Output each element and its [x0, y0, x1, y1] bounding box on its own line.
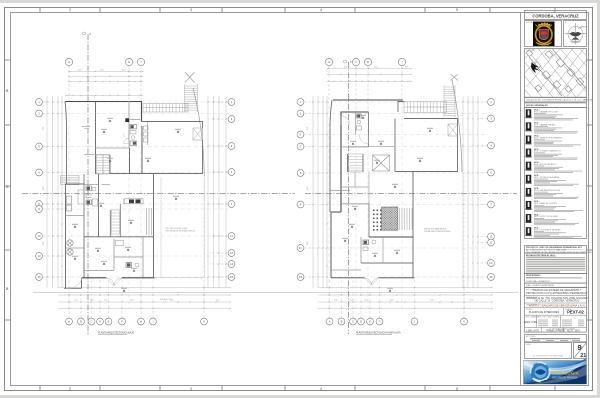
- plan1 grid bubbles bottom: [66, 318, 73, 325]
- svg-text:2.40: 2.40: [104, 300, 107, 302]
- svg-text:3: 3: [190, 387, 192, 391]
- symbol legend list: [525, 108, 587, 239]
- svg-text:3.50: 3.50: [122, 69, 125, 71]
- plan2 bath fixtures upper: [357, 114, 362, 118]
- notes header block: [525, 246, 587, 254]
- svg-text:2.85: 2.85: [43, 242, 45, 245]
- svg-text:2.40: 2.40: [216, 300, 219, 302]
- svg-text:MOD.: CONTACTO MAGNETICO: MOD.: CONTACTO MAGNETICO: [534, 150, 562, 153]
- svg-text:2.85: 2.85: [307, 127, 309, 130]
- title block separator: [520, 13, 522, 386]
- svg-text:TRAMO: A PARTE: TRAMO: A PARTE: [546, 329, 565, 332]
- svg-text:E: E: [108, 320, 110, 324]
- plan1 dimension lines bottom: [58, 287, 230, 289]
- svg-text:2.85: 2.85: [43, 187, 45, 190]
- plan2 dimension lines top: [328, 68, 411, 70]
- plan2 bottom wall with entry: [331, 277, 365, 279]
- plan2 exterior walls upper: [341, 112, 369, 212]
- svg-text:INSTALACION PARA EL HILO:: INSTALACION PARA EL HILO:: [526, 254, 556, 257]
- section line A-A: [22, 193, 295, 195]
- plan2 interior upper walls: [368, 112, 370, 147]
- svg-text:11': 11': [489, 241, 493, 245]
- plan1 bottom wall with entry: [82, 277, 107, 279]
- plan1 grid bubbles right: [228, 99, 235, 106]
- svg-text:TECNOLOGIA: TECNOLOGIA: [549, 371, 579, 376]
- symbol row 7: [525, 187, 579, 199]
- crest emblem: [533, 22, 555, 47]
- plan1 big room upper-right: [110, 122, 203, 174]
- svg-text:PROTECCION (CCTV) EXTERIORES (: PROTECCION (CCTV) EXTERIORES (PERIMETRAL…: [526, 292, 588, 295]
- svg-text:5: 5: [456, 8, 458, 12]
- svg-text:2.40: 2.40: [90, 300, 93, 302]
- plan1 kitchen counter: [124, 199, 143, 204]
- svg-text:9: 9: [578, 343, 582, 352]
- svg-text:ACOT.: MTS: ACOT.: MTS: [567, 329, 580, 332]
- svg-text:H. CORDOBA: H. CORDOBA: [538, 43, 550, 46]
- svg-text:NOTAS GENERALES: NOTAS GENERALES: [526, 104, 548, 107]
- svg-text:2.40: 2.40: [130, 300, 133, 302]
- empty box + sheet number: [525, 343, 572, 359]
- svg-text:MOD.: TECLADO DE ALARMA: MOD.: TECLADO DE ALARMA: [534, 176, 560, 179]
- section line A-A right: [305, 193, 517, 195]
- simbologia strip: [525, 103, 587, 108]
- plan2 central walls: [394, 119, 396, 172]
- svg-text:4: 4: [320, 8, 322, 12]
- plan2 lower bath fixtures: [363, 240, 369, 245]
- plan2 upper exterior stair (vertical run): [444, 85, 455, 117]
- svg-text:PLANTA ARQUITECTONICA PLANTA A: PLANTA ARQUITECTONICA PLANTA ALTA: [356, 332, 401, 335]
- symbol row 9: [525, 213, 579, 225]
- plan2 grid bubbles left: [297, 99, 304, 106]
- svg-text:E: E: [369, 320, 371, 324]
- symbol row 8: [525, 200, 583, 212]
- plan1 exterior walls upper block: [65, 102, 142, 122]
- svg-text:11: 11: [490, 235, 493, 239]
- plan1 upper stairs: [84, 154, 110, 156]
- plan2 stairs top: [404, 102, 447, 113]
- plan2 left boundary curve: [330, 100, 332, 212]
- svg-text:2: 2: [69, 387, 71, 391]
- plan2 lower rooms: [360, 237, 362, 263]
- svg-text:MOD.: SENSOR DE MOVIMIENTO: MOD.: SENSOR DE MOVIMIENTO: [534, 138, 563, 140]
- plan2 dimension lines left: [312, 96, 314, 288]
- signature strip: [525, 335, 587, 342]
- plan1 grid bubbles top: [65, 58, 72, 65]
- symbol row 2: [525, 122, 578, 134]
- svg-text:AUTORIZO:: AUTORIZO:: [526, 335, 537, 338]
- svg-text:B: B: [341, 320, 343, 324]
- dense notes paragraph: [525, 253, 587, 273]
- svg-text:10: 10: [37, 234, 41, 238]
- svg-text:3.50: 3.50: [78, 69, 81, 71]
- symbol row 6: [525, 174, 579, 186]
- svg-text:15: 15: [230, 275, 234, 279]
- svg-text:VISUALIZACION/MONITOREO: VISUALIZACION/MONITOREO: [424, 230, 451, 233]
- svg-text:D: D: [99, 320, 101, 324]
- svg-text:MOD.: DETECTOR DE HUMO: MOD.: DETECTOR DE HUMO: [534, 216, 559, 218]
- svg-text:C': C': [355, 60, 358, 64]
- plan2 grid bubbles top: [325, 58, 332, 65]
- svg-text:2.85: 2.85: [43, 127, 45, 130]
- location map box: [525, 49, 587, 98]
- svg-text:K: K: [463, 320, 465, 324]
- svg-text:CORDOBA - VERACRUZ: CORDOBA - VERACRUZ: [526, 280, 550, 283]
- svg-text:PEXT-02: PEXT-02: [567, 310, 584, 315]
- svg-text:B: B: [80, 320, 82, 324]
- plan1 exterior side stair: [61, 176, 80, 185]
- plan1 central stairs: [109, 210, 111, 237]
- svg-text:A: A: [328, 60, 330, 64]
- svg-text:3.50: 3.50: [405, 67, 408, 69]
- svg-text:C: C: [90, 320, 92, 324]
- plan2 service rooms above recamara: [330, 190, 350, 192]
- symbol row 4: [525, 148, 578, 160]
- ubicacion strip: [525, 98, 587, 102]
- plan1 bath column fixtures: [86, 186, 92, 191]
- svg-text:15: 15: [37, 275, 41, 279]
- svg-text:ESCALA 1:75: ESCALA 1:75: [160, 298, 171, 301]
- svg-text:2.40: 2.40: [334, 300, 337, 302]
- plan2 recamara walls: [341, 203, 369, 205]
- svg-text:11': 11': [299, 246, 303, 250]
- svg-text:15: 15: [489, 275, 493, 279]
- symbol row 5: [525, 161, 582, 173]
- svg-text:5: 5: [456, 387, 458, 391]
- plan1 garage label: [82, 125, 90, 128]
- plan1 door arcs upper: [124, 134, 129, 139]
- plan2 X cross void: [373, 155, 390, 171]
- plan1 stairs top: [143, 104, 188, 113]
- plan1 lower rooms: [83, 237, 85, 278]
- svg-text:MOD.: BOTON DE PANICO: MOD.: BOTON DE PANICO: [534, 163, 557, 166]
- border zone labels: [6, 8, 458, 391]
- svg-text:VoBo:: VoBo:: [526, 344, 532, 346]
- plan2 closet dotted grid: [373, 210, 375, 212]
- svg-text:ESC. DE COTAS / DATOS: ESC. DE COTAS / DATOS: [538, 315, 560, 318]
- svg-text:MOD.: CAMARA FIJA EXT.: MOD.: CAMARA FIJA EXT.: [534, 124, 556, 127]
- plan2 dimension lines right: [462, 96, 464, 288]
- plan1 lower bath fixtures: [126, 263, 132, 268]
- svg-text:INSTITUTO BANCARIO DE VERACRUZ: INSTITUTO BANCARIO DE VERACRUZANA (I.B.V…: [529, 304, 585, 307]
- svg-text:14: 14: [230, 262, 234, 266]
- svg-text:2.40: 2.40: [74, 300, 77, 302]
- svg-text:13: 13: [37, 254, 41, 258]
- obs strip: [525, 283, 587, 287]
- svg-text:OBS.: SUJETO A REVISION: OBS.: SUJETO A REVISION: [526, 284, 554, 287]
- plan2 grid bubbles right: [488, 99, 495, 106]
- symbol row 10: [525, 226, 582, 238]
- plan2 site boundary: [452, 80, 462, 172]
- svg-text:F: F: [379, 320, 381, 324]
- plan1 room labels: [107, 118, 113, 122]
- plan1 bath column wall: [98, 174, 100, 237]
- svg-text:MOD.: LECTORA DE TARJETAS: MOD.: LECTORA DE TARJETAS: [534, 228, 561, 231]
- plan1 entry double door arcs: [106, 278, 121, 286]
- plan1 mid horizontal wall: [84, 236, 154, 238]
- svg-text:PLANOS DE INTERIORES: PLANOS DE INTERIORES: [529, 311, 560, 314]
- svg-text:3: 3: [190, 8, 192, 12]
- svg-text:2.40: 2.40: [350, 300, 353, 302]
- plan2 middle bottom wall: [369, 236, 413, 238]
- plan2 grid bubbles bottom: [326, 318, 333, 325]
- svg-text:2.85: 2.85: [307, 187, 309, 190]
- plan1 left wing walls: [66, 184, 85, 288]
- north arrow box: [564, 21, 587, 47]
- svg-text:VER DETALLE EN PLANO EST-01: VER DETALLE EN PLANO EST-01: [166, 229, 196, 232]
- plan1 grid bubbles left: [36, 99, 43, 106]
- header box: [525, 11, 587, 20]
- svg-text:2: 2: [69, 8, 71, 12]
- svg-text:12: 12: [230, 251, 234, 255]
- plan2 dimension lines bottom: [318, 287, 492, 289]
- plan1 dimension lines right: [207, 96, 209, 288]
- svg-text:15: 15: [299, 275, 303, 279]
- plan2 top boundary wall: [333, 99, 403, 101]
- svg-text:2.40: 2.40: [430, 300, 433, 302]
- plan1 porch corner: [81, 278, 83, 289]
- plan1 dimension lines left: [46, 96, 48, 288]
- svg-text:D: D: [360, 320, 362, 324]
- plan1 vertical axis line: [87, 34, 89, 334]
- svg-text:PLANTA ARQUITECTONICA BAJA: PLANTA ARQUITECTONICA BAJA: [98, 332, 134, 335]
- svg-text:2.40: 2.40: [470, 300, 473, 302]
- map locator arrow: [531, 62, 540, 73]
- svg-text:3.50: 3.50: [344, 67, 347, 69]
- svg-text:14': 14': [489, 261, 493, 265]
- plan2 shelving lines right of hatch: [399, 208, 401, 230]
- svg-text:2.40: 2.40: [364, 300, 367, 302]
- long datum line across sheet: [33, 291, 518, 293]
- svg-text:F: F: [121, 320, 123, 324]
- propietario block: [525, 274, 587, 284]
- svg-text:C: C: [352, 320, 354, 324]
- plan1 dining room / shelves: [146, 208, 148, 235]
- plan2 door arcs upper: [360, 135, 369, 144]
- svg-text:CORDOBA, VERACRUZ: CORDOBA, VERACRUZ: [532, 14, 579, 19]
- svg-text:MOD.: CAMARA TIPO DOMO: MOD.: CAMARA TIPO DOMO: [534, 110, 559, 113]
- svg-text:3.50: 3.50: [100, 69, 103, 71]
- svg-text:21: 21: [580, 353, 586, 359]
- svg-text:K: K: [203, 320, 205, 324]
- plan1 bath fixtures: [130, 125, 137, 129]
- svg-text:No. DE REGISTRO PROFESIONAL: No. DE REGISTRO PROFESIONAL: [533, 355, 563, 358]
- plan2 hatched roof area: [382, 207, 398, 230]
- plan2 room labels: [360, 115, 366, 119]
- svg-text:A: A: [68, 320, 70, 324]
- crest box: [525, 21, 562, 47]
- plan1 dimension lines top: [69, 70, 143, 72]
- plan2 interior stairs: [347, 154, 349, 172]
- plan1 patio lines: [160, 177, 162, 278]
- svg-text:11: 11: [230, 234, 233, 238]
- plan1 laundry fixtures: [67, 240, 73, 246]
- svg-text:D': D': [367, 60, 370, 64]
- svg-text:DE CALLE 16, CORDOBA, VERACRUZ: DE CALLE 16, CORDOBA, VERACRUZ: [535, 300, 580, 303]
- project data block: [525, 288, 587, 333]
- plan1 left boundary curve: [65, 102, 67, 185]
- svg-text:MOD.: PANEL DE CONTROL: MOD.: PANEL DE CONTROL: [534, 202, 558, 205]
- svg-text:3.50: 3.50: [374, 67, 377, 69]
- svg-text:A: A: [329, 320, 331, 324]
- symbol row 1: [525, 109, 578, 121]
- svg-text:1 DIB.: MTR: 1 DIB.: MTR: [526, 330, 539, 332]
- plan2 big room right: [395, 119, 458, 172]
- symbol row 3: [525, 135, 581, 147]
- plan1 door header mark: [125, 118, 129, 122]
- plan1 interior wall x95.5: [95, 102, 97, 175]
- svg-text:MOD.: SIRENA EXTERIOR 30W: MOD.: SIRENA EXTERIOR 30W: [534, 189, 560, 192]
- plan1 upper exterior stair (vertical run): [185, 84, 198, 112]
- plan1 interior walls upper: [128, 101, 130, 148]
- svg-text:4: 4: [320, 387, 322, 391]
- svg-text:ESC 1:50: ESC 1:50: [524, 320, 537, 324]
- scale table: [536, 315, 538, 327]
- svg-text:2.40: 2.40: [390, 300, 393, 302]
- svg-text:NORTE: NORTE: [581, 26, 589, 28]
- svg-text:UBICACION: AV. 11 PONIENTE ENT: UBICACION: AV. 11 PONIENTE ENTRE CALLE 1…: [526, 99, 593, 102]
- plan2 vertical axis line: [348, 62, 350, 334]
- plan1 site boundary: [193, 88, 204, 176]
- svg-text:2.85: 2.85: [307, 242, 309, 245]
- svg-text:PROPIETARIO:: PROPIETARIO:: [526, 274, 541, 277]
- svg-text:A: A: [68, 60, 70, 64]
- svg-text:SEGURIDAD PRIVADA: SEGURIDAD PRIVADA: [552, 377, 578, 380]
- svg-text:H: H: [140, 320, 142, 324]
